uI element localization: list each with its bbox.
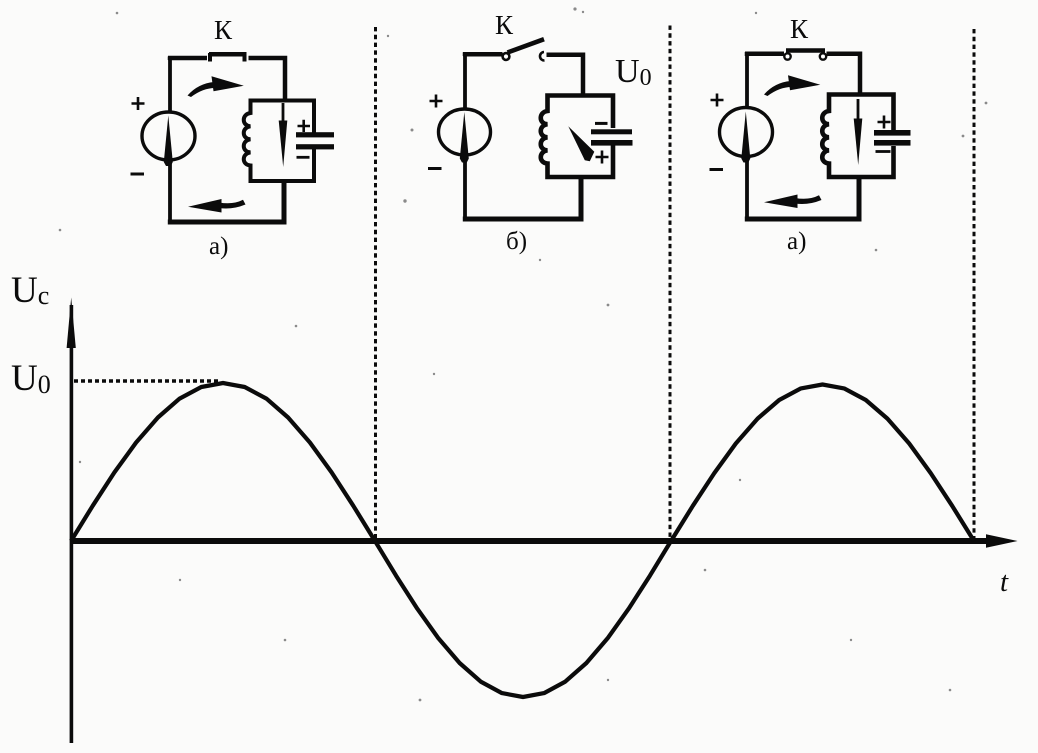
capacitor C1 top plate (circuit a, left) xyxy=(296,132,334,137)
source plus terminal label (circuit b) xyxy=(430,95,443,108)
svg-text:t: t xyxy=(1000,566,1009,598)
source plus terminal label (circuit a, right) xyxy=(711,94,724,107)
source plus terminal label (circuit a, left) xyxy=(132,97,145,110)
current arrow top (circuit a, right) xyxy=(764,75,820,96)
svg-text:а): а) xyxy=(209,233,228,260)
source U2 emf arrow needle (circuit b) xyxy=(460,112,469,163)
wire bottom (circuit a, right) xyxy=(745,177,859,219)
svg-text:К: К xyxy=(214,15,233,45)
capacitor plus polarity label (circuit b) xyxy=(596,151,609,164)
capacitor C2 top plate (circuit b) xyxy=(591,129,632,134)
phase boundary dashed vertical line 1 xyxy=(374,27,377,539)
source U3 circle (circuit a, right) xyxy=(720,108,773,157)
wire top-right segment (circuit b) xyxy=(547,55,584,96)
LC tank box with inductor L1 coil on left edge (circuit a, left) xyxy=(244,101,314,182)
source U1 emf arrow needle (circuit a, left) xyxy=(164,116,173,167)
wire source bottom to bottom-left corner (circuit b) xyxy=(463,156,467,221)
wire source top (circuit a, left) xyxy=(168,58,172,113)
svg-text:Uc: Uc xyxy=(11,270,49,311)
capacitor C3 bottom plate (circuit a, right) xyxy=(874,140,911,146)
current arrow top (circuit a, left) xyxy=(188,76,244,97)
wire top-left segment (circuit b) xyxy=(463,52,503,56)
wire top-right segment (circuit a, right) xyxy=(827,54,861,95)
x-axis arrowhead xyxy=(986,534,1018,548)
wire source top (circuit b) xyxy=(463,54,467,110)
svg-text:U0: U0 xyxy=(11,358,51,399)
svg-text:К: К xyxy=(790,14,809,44)
capacitor plus polarity label (circuit a, right) xyxy=(878,116,891,129)
svg-text:U0: U0 xyxy=(615,53,652,91)
svg-text:а): а) xyxy=(787,228,806,255)
phase boundary dashed vertical line 3 xyxy=(973,29,976,539)
source U1 circle (circuit a, left) xyxy=(142,112,195,160)
wire top-right segment (circuit a, left) xyxy=(249,58,286,101)
dotted level line U0 to first crest xyxy=(74,379,221,382)
discharge arrow needle pointing down inside tank (circuit a, right) xyxy=(854,99,863,165)
svg-text:б): б) xyxy=(506,228,527,255)
wire source bottom to bottom-left corner (circuit a, left) xyxy=(168,159,172,224)
switch K open lever (circuit b) xyxy=(508,39,545,52)
capacitor plus polarity label (circuit a, left) xyxy=(298,120,311,132)
capacitor minus polarity label (circuit a, left) xyxy=(297,156,310,159)
y-axis line xyxy=(70,305,74,743)
sine wave curve Uc(t) xyxy=(71,383,974,697)
switch contact rings (circuit a, right) xyxy=(784,53,826,59)
capacitor C2 bottom plate (circuit b) xyxy=(591,140,633,146)
source minus terminal label (circuit a, right) xyxy=(710,168,724,171)
x-axis line xyxy=(70,538,990,544)
LC tank box with inductor L2 coil on left edge (circuit b) xyxy=(541,96,613,178)
current arrow bottom (circuit a, left) xyxy=(188,199,246,213)
wire top-left segment (circuit a, right) xyxy=(745,52,784,56)
capacitor minus polarity label (circuit a, right) xyxy=(876,150,891,153)
capacitor minus polarity label (circuit b) xyxy=(595,122,608,125)
LC tank box with inductor L3 coil on left edge (circuit a, right) xyxy=(822,95,893,178)
svg-text:К: К xyxy=(495,10,514,40)
capacitor C1 bottom plate (circuit a, left) xyxy=(296,144,334,149)
current arrow bottom (circuit a, right) xyxy=(764,195,822,209)
switch K closed (circuit a, left) xyxy=(209,53,247,62)
phase boundary dashed vertical line 2 xyxy=(669,26,672,540)
switch K open: right contact ring (circuit b) xyxy=(540,52,545,61)
wire source top (circuit a, right) xyxy=(745,54,749,109)
wire bottom (circuit a, left) xyxy=(168,181,284,222)
wire top-left segment (circuit a, left) xyxy=(168,57,207,61)
discharge arrow needle pointing down inside tank (circuit a, left) xyxy=(279,103,288,167)
source U2 circle (circuit b) xyxy=(439,109,491,155)
switch K open: left contact ring (circuit b) xyxy=(503,53,510,60)
capacitor C3 top plate (circuit a, right) xyxy=(874,130,911,136)
discharge arrow needle pointing down-right inside tank (circuit b) xyxy=(568,126,594,161)
wire bottom (circuit b) xyxy=(463,177,581,219)
wire source bottom to bottom-left corner (circuit a, right) xyxy=(745,156,749,221)
switch K closed (circuit a, right) xyxy=(786,48,825,53)
source U3 emf arrow needle (circuit a, right) xyxy=(741,112,750,163)
y-axis arrowhead xyxy=(67,298,76,349)
source minus terminal label (circuit b) xyxy=(428,167,442,170)
source minus terminal label (circuit a, left) xyxy=(131,173,145,176)
